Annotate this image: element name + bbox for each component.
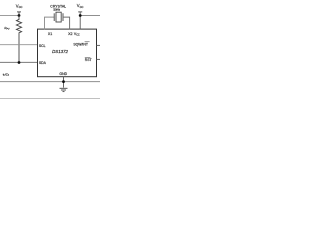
svg-text:DS1372: DS1372 — [52, 49, 68, 54]
wire: GND pin stem — [63, 77, 65, 88]
wire: SDA to left edge — [0, 61, 38, 63]
resistor RPU — [16, 16, 21, 63]
svg-text:RST: RST — [85, 58, 92, 62]
svg-text:GND: GND — [59, 72, 67, 76]
IC U1 DS1372 box — [38, 29, 97, 77]
wire: SQW/INT to right edge — [97, 44, 101, 46]
crystal body — [56, 12, 61, 22]
power VCC (right) — [78, 12, 82, 29]
node: GND junction — [62, 80, 65, 83]
overline on INT — [85, 41, 90, 43]
crystal left plate — [53, 13, 55, 21]
svg-text:SQW/INT: SQW/INT — [73, 43, 88, 47]
wire: ground rail — [0, 81, 100, 83]
page rule (bottom border line) — [0, 98, 100, 100]
crystal right plate — [62, 13, 64, 21]
power VCC (left) — [17, 12, 21, 16]
wire: SCL to left edge — [0, 44, 38, 46]
wire: right VCC rail — [80, 15, 100, 17]
svg-text:32kHz: 32kHz — [53, 8, 61, 11]
wire: RST to right edge — [97, 58, 101, 60]
wire: left VCC rail — [0, 14, 19, 16]
svg-text:X2: X2 — [68, 32, 72, 36]
wire: X1 lead — [45, 17, 55, 29]
node: SDA / RPU junction — [18, 61, 21, 64]
ground — [60, 88, 68, 91]
node: VCC / RPU junction — [18, 14, 21, 17]
overline on RST — [85, 57, 91, 59]
svg-text:SCL: SCL — [39, 44, 46, 48]
node: right VCC junction — [79, 14, 82, 17]
svg-text:X1: X1 — [48, 32, 52, 36]
svg-text:SDA: SDA — [39, 61, 47, 65]
svg-text:VCC: VCC — [74, 32, 80, 37]
wire: X2 lead — [63, 17, 70, 29]
